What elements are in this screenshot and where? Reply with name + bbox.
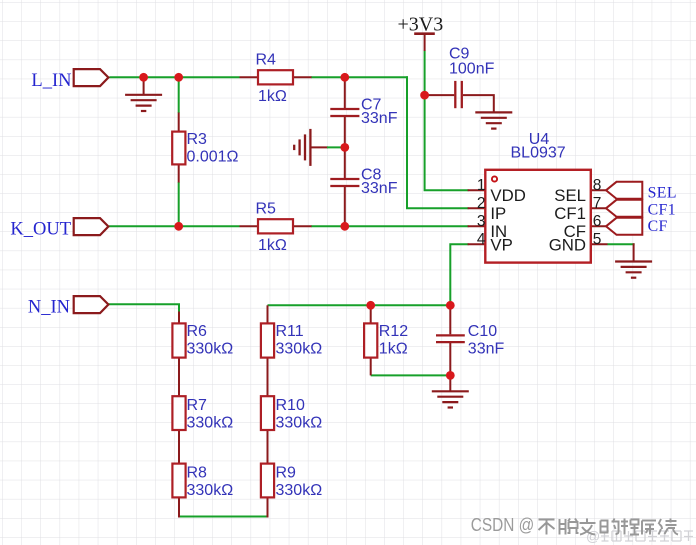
svg-text:330kΩ: 330kΩ — [187, 482, 234, 499]
svg-text:GND: GND — [549, 236, 586, 255]
svg-text:100nF: 100nF — [449, 61, 495, 78]
svg-text:R9: R9 — [276, 465, 297, 482]
svg-text:330kΩ: 330kΩ — [276, 482, 323, 499]
svg-text:CSDN @: CSDN @ — [471, 514, 535, 535]
svg-text:BL0937: BL0937 — [511, 145, 566, 162]
svg-text:33nF: 33nF — [468, 341, 505, 358]
svg-text:330kΩ: 330kΩ — [276, 415, 323, 432]
svg-text:1kΩ: 1kΩ — [258, 88, 287, 105]
svg-text:CF: CF — [648, 218, 668, 235]
svg-text:VDD: VDD — [490, 186, 525, 205]
svg-text:1: 1 — [477, 177, 486, 194]
svg-text:330kΩ: 330kΩ — [187, 341, 234, 358]
svg-text:6: 6 — [593, 213, 602, 230]
svg-text:VP: VP — [490, 236, 512, 255]
svg-text:R5: R5 — [256, 200, 277, 217]
svg-text:5: 5 — [593, 231, 602, 248]
svg-text:0.001Ω: 0.001Ω — [187, 149, 239, 166]
svg-text:2: 2 — [477, 195, 486, 212]
svg-text:L_IN: L_IN — [31, 71, 71, 91]
svg-text:IP: IP — [490, 204, 506, 223]
svg-text:330kΩ: 330kΩ — [187, 415, 234, 432]
svg-text:33nF: 33nF — [361, 180, 398, 197]
svg-text:R8: R8 — [187, 465, 208, 482]
svg-text:3: 3 — [477, 213, 486, 230]
svg-text:8: 8 — [593, 177, 602, 194]
svg-text:33nF: 33nF — [361, 110, 398, 127]
svg-text:1kΩ: 1kΩ — [258, 237, 287, 254]
svg-text:SEL: SEL — [554, 186, 586, 205]
svg-text:SEL: SEL — [648, 184, 677, 201]
svg-text:R3: R3 — [187, 131, 208, 148]
svg-text:CF1: CF1 — [554, 204, 586, 223]
svg-text:1kΩ: 1kΩ — [379, 341, 408, 358]
svg-text:N_IN: N_IN — [28, 298, 70, 318]
svg-text:K_OUT: K_OUT — [10, 220, 71, 240]
svg-text:CF1: CF1 — [648, 201, 676, 218]
svg-text:C10: C10 — [468, 323, 497, 340]
svg-text:4: 4 — [477, 231, 486, 248]
svg-text:R12: R12 — [379, 323, 408, 340]
svg-text:R11: R11 — [276, 323, 304, 340]
svg-text:R10: R10 — [276, 397, 305, 414]
svg-text:R7: R7 — [187, 397, 208, 414]
svg-text:7: 7 — [593, 195, 602, 212]
svg-text:330kΩ: 330kΩ — [276, 341, 323, 358]
svg-text:R6: R6 — [187, 323, 208, 340]
svg-text:R4: R4 — [256, 51, 277, 68]
svg-text:+3V3: +3V3 — [398, 14, 444, 36]
